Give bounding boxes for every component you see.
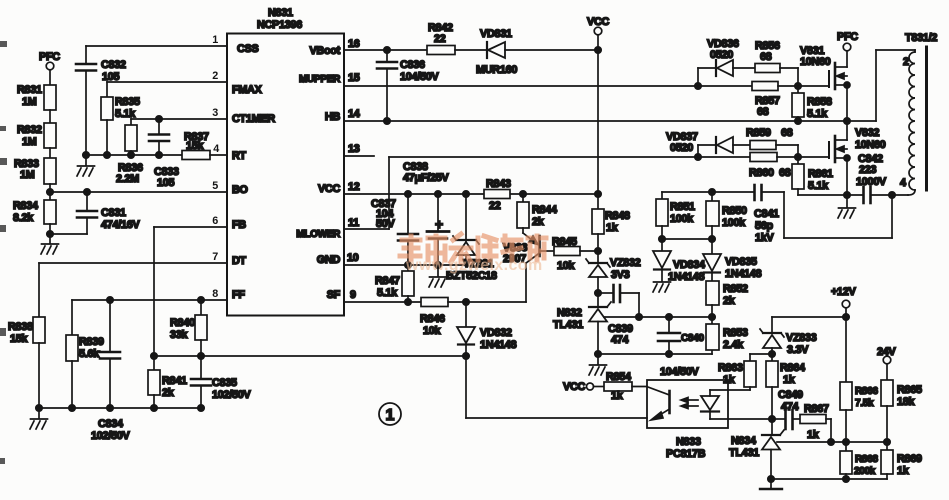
svg-text:15k: 15k	[10, 333, 29, 345]
wire	[49, 224, 51, 243]
transistor V833 2907	[503, 228, 554, 302]
wire CSS pin1 line	[86, 46, 227, 63]
resistor R852	[706, 281, 748, 324]
capacitor C838 electrolytic	[403, 161, 449, 265]
diode VD832 1N4148	[457, 302, 517, 356]
svg-text:VD832: VD832	[480, 327, 512, 339]
pin 3 CTIMER	[212, 107, 275, 125]
svg-text:10: 10	[347, 252, 359, 264]
svg-text:22: 22	[489, 200, 501, 212]
pin 8 FF	[212, 288, 245, 301]
svg-text:8: 8	[212, 288, 218, 300]
svg-text:R850: R850	[722, 205, 747, 217]
node R834 bottom junction	[47, 231, 53, 237]
svg-text:GND: GND	[317, 254, 341, 266]
svg-text:2.4k: 2.4k	[723, 339, 744, 351]
svg-text:100k: 100k	[670, 213, 694, 225]
svg-text:C849: C849	[778, 389, 803, 401]
svg-text:1N4148: 1N4148	[668, 271, 705, 283]
circled figure number 1	[379, 403, 401, 425]
svg-text:SF: SF	[327, 289, 341, 301]
wire CTIMER pin3 line	[131, 119, 227, 125]
svg-text:R863: R863	[718, 362, 743, 374]
resistor R838	[8, 317, 45, 408]
resistor R846	[420, 298, 526, 338]
wire GND pin10 line	[344, 262, 466, 268]
resistor R850	[706, 192, 747, 254]
svg-text:11: 11	[348, 217, 359, 229]
wire	[49, 148, 51, 158]
pin 4 RT	[213, 143, 246, 162]
resistor R845	[552, 236, 598, 272]
svg-text:1N4148: 1N4148	[480, 339, 517, 351]
pin 16 VBoot	[309, 38, 359, 57]
pin 7 DT	[212, 251, 246, 267]
svg-text:R841: R841	[162, 375, 187, 387]
svg-text:CT1MER: CT1MER	[232, 113, 275, 125]
ground (secondary, single bar)	[760, 488, 782, 490]
svg-text:VZ832: VZ832	[610, 257, 641, 269]
svg-text:N832: N832	[557, 307, 582, 319]
svg-text:15: 15	[348, 72, 360, 84]
node MLOWER network left junction	[695, 145, 716, 160]
svg-text:2k: 2k	[162, 387, 175, 399]
svg-text:1k: 1k	[807, 429, 820, 441]
svg-text:0520: 0520	[710, 49, 733, 61]
svg-text:FF: FF	[232, 289, 245, 301]
svg-text:7: 7	[212, 251, 218, 263]
svg-text:R848: R848	[605, 210, 630, 222]
svg-text:5.1k: 5.1k	[807, 108, 828, 120]
resistor R840	[170, 297, 207, 356]
watermark	[400, 234, 546, 274]
ground	[429, 265, 447, 287]
svg-text:223: 223	[859, 164, 877, 176]
svg-text:R861: R861	[808, 168, 833, 180]
svg-text:TL431: TL431	[729, 447, 759, 459]
svg-text:C835: C835	[212, 377, 237, 389]
ground	[589, 365, 607, 375]
resistor R864	[766, 361, 805, 434]
node VCC terminal	[587, 16, 609, 194]
svg-text:1k: 1k	[611, 390, 624, 402]
svg-text:1N4148: 1N4148	[725, 268, 762, 280]
svg-text:474: 474	[781, 401, 799, 413]
shunt-reg N834 TL431	[729, 430, 887, 488]
svg-text:R869: R869	[897, 453, 922, 465]
svg-text:R866: R866	[855, 386, 878, 397]
wire	[49, 184, 51, 200]
pin 12 VCC	[318, 181, 360, 195]
op-amp U2 : optocoupler N833 PC817B	[647, 380, 728, 460]
svg-text:9: 9	[350, 289, 356, 301]
resistor R867	[800, 403, 831, 442]
svg-text:200k: 200k	[854, 466, 876, 477]
svg-text:100k: 100k	[722, 217, 746, 229]
resistor R836	[116, 125, 143, 185]
svg-text:C841: C841	[754, 208, 779, 220]
svg-text:www.gzweix.com: www.gzweix.com	[405, 257, 543, 274]
resistor R837	[182, 131, 227, 160]
svg-text:0520: 0520	[670, 142, 693, 154]
svg-text:R831: R831	[17, 84, 42, 96]
resistor R860	[698, 153, 829, 180]
svg-text:PC817B: PC817B	[666, 448, 706, 460]
node BO junction	[47, 189, 53, 195]
svg-text:22: 22	[434, 33, 446, 45]
svg-text:1k: 1k	[897, 465, 910, 477]
svg-text:474: 474	[611, 334, 629, 346]
svg-text:R840: R840	[170, 317, 195, 329]
node ground rail junctions	[36, 405, 204, 411]
resistor R859	[746, 127, 798, 157]
resistor R848	[592, 194, 630, 262]
capacitor C849 474	[772, 389, 803, 429]
node 24V terminal	[877, 346, 897, 380]
svg-text:R864: R864	[780, 362, 805, 374]
op-amp U1 : IC N831 NCP1396 controller box	[227, 7, 344, 316]
svg-text:R832: R832	[17, 124, 42, 136]
svg-text:1000V: 1000V	[856, 176, 887, 188]
svg-text:VCC: VCC	[587, 16, 609, 28]
ground	[77, 155, 95, 176]
svg-text:C831: C831	[101, 207, 126, 219]
svg-text:1M: 1M	[22, 96, 37, 108]
scan edge artifacts	[0, 41, 7, 464]
capacitor C831	[50, 192, 141, 234]
diode VD836 0520	[707, 38, 755, 76]
svg-text:10k: 10k	[423, 325, 442, 337]
capacitor C839	[598, 285, 639, 346]
svg-text:105: 105	[157, 177, 175, 189]
svg-text:DT: DT	[232, 255, 247, 267]
pin 13 stub	[344, 143, 374, 156]
svg-text:5.6k: 5.6k	[79, 348, 100, 360]
resistor R851	[656, 192, 695, 251]
wire VBoot pin16 line	[344, 47, 427, 53]
svg-text:12: 12	[348, 181, 360, 193]
capacitor C842 223 1000V	[856, 153, 908, 203]
svg-text:V832: V832	[855, 127, 879, 139]
diode VD834 1N4148	[653, 251, 705, 283]
resistor R861	[792, 157, 862, 195]
node PFC (left input terminal)	[39, 51, 60, 85]
svg-text:10N60: 10N60	[855, 139, 886, 151]
svg-text:C832: C832	[101, 59, 126, 71]
svg-text:R835: R835	[115, 96, 140, 108]
node C831 tap	[84, 189, 90, 195]
svg-text:R839: R839	[79, 336, 104, 348]
node VCC terminal (R854)	[563, 381, 604, 393]
svg-text:BO: BO	[232, 184, 248, 196]
ground	[653, 282, 671, 292]
wire secondary ground rail y354	[598, 350, 712, 357]
resistor R868	[840, 451, 878, 479]
svg-text:1M: 1M	[20, 169, 35, 181]
capacitor C836 bootstrap	[377, 50, 440, 121]
resistor R831	[17, 84, 56, 110]
resistor R835	[101, 96, 140, 155]
node CT junction	[156, 116, 162, 122]
pin 14 HB	[325, 108, 360, 123]
ground	[838, 195, 856, 218]
svg-text:R859: R859	[746, 127, 771, 139]
pin 11 MLOWER	[296, 217, 359, 240]
svg-text:1k: 1k	[606, 222, 619, 234]
resistor R842	[427, 22, 487, 55]
zener VZ833 3.3V	[760, 317, 846, 361]
node REF-line junctions	[828, 439, 890, 445]
svg-text:NCP1396: NCP1396	[257, 19, 302, 31]
svg-text:102/50V: 102/50V	[212, 389, 252, 401]
svg-text:MLOWER: MLOWER	[296, 229, 341, 240]
svg-text:16: 16	[348, 38, 360, 50]
node rail junctions	[83, 152, 162, 158]
svg-text:1: 1	[386, 407, 395, 424]
svg-text:47μF/25V: 47μF/25V	[403, 172, 449, 184]
resistor R834	[13, 200, 56, 224]
resistor R863	[718, 354, 772, 390]
svg-text:13: 13	[348, 143, 360, 155]
pin 1 CSS	[212, 34, 258, 55]
diode VD831 MUR160	[476, 28, 598, 76]
svg-text:2: 2	[903, 56, 909, 68]
svg-text:8.2k: 8.2k	[13, 212, 34, 224]
svg-text:3V3: 3V3	[611, 269, 630, 281]
wire FB pin6 line	[154, 227, 227, 356]
capacitor C840	[658, 317, 704, 378]
pin 5 BO	[212, 180, 247, 196]
transistor Q1 : MOSFET V831 10N60	[800, 45, 850, 121]
wire bottom-left ground rail	[39, 407, 201, 409]
pin 9 SF	[327, 289, 356, 301]
wire VD834/VD835 link	[662, 238, 712, 240]
wire BO line to IC pin5	[50, 191, 227, 193]
svg-text:PFC: PFC	[39, 51, 60, 63]
wire feedback rail y356	[154, 355, 466, 357]
svg-text:FMAX: FMAX	[232, 84, 263, 96]
svg-text:1kV: 1kV	[755, 232, 775, 244]
transistor phototransistor of N833	[648, 387, 670, 420]
resistor R857	[698, 82, 829, 119]
capacitor C835	[191, 356, 252, 408]
capacitor C832	[76, 59, 126, 155]
wire secondary bottom rail	[771, 476, 887, 482]
wire VCC pin12 line	[344, 191, 601, 197]
wire VD832 to optocoupler	[463, 353, 647, 418]
svg-text:VZ833: VZ833	[786, 332, 817, 344]
svg-text:102/50V: 102/50V	[91, 430, 131, 442]
svg-text:1k: 1k	[783, 374, 796, 386]
svg-text:3: 3	[212, 107, 218, 119]
svg-text:VCC: VCC	[563, 381, 585, 393]
svg-text:10N60: 10N60	[800, 56, 831, 68]
wire SF pin9 line	[344, 299, 421, 305]
node PFC terminal (right)	[837, 31, 858, 51]
resistor R841	[148, 356, 187, 408]
svg-text:104/50V: 104/50V	[400, 71, 440, 83]
svg-text:68: 68	[779, 167, 791, 179]
capacitor C833	[149, 119, 179, 189]
svg-text:1: 1	[212, 34, 218, 46]
svg-text:4: 4	[213, 143, 219, 155]
svg-text:R858: R858	[807, 96, 832, 108]
svg-text:R838: R838	[8, 321, 33, 333]
zener VZ832 3V3	[586, 257, 641, 306]
diode VD835 1N4148	[703, 254, 762, 281]
wire	[49, 110, 51, 123]
svg-text:33k: 33k	[170, 329, 189, 341]
svg-text:18k: 18k	[897, 396, 916, 408]
shunt-reg N832 TL431	[553, 302, 712, 364]
svg-text:C840: C840	[681, 333, 704, 344]
svg-text:N831: N831	[268, 7, 293, 19]
capacitor C841 56p 1kV	[754, 185, 892, 244]
svg-text:R852: R852	[723, 283, 748, 295]
svg-text:FB: FB	[232, 219, 246, 231]
resistor R832	[17, 123, 56, 148]
svg-text:C836: C836	[400, 59, 425, 71]
ground	[30, 408, 48, 429]
svg-text:4: 4	[900, 177, 906, 189]
pin 6 FB	[212, 215, 246, 231]
zener VZ831 BZT52C18	[446, 191, 497, 282]
svg-text:HB: HB	[325, 111, 341, 123]
resistor R856	[755, 40, 798, 86]
light arrows	[681, 398, 698, 409]
svg-text:3.3V: 3.3V	[787, 344, 809, 356]
node MUPPER network left junction	[695, 68, 716, 89]
svg-text:2k: 2k	[532, 216, 545, 228]
svg-text:R868: R868	[855, 454, 878, 465]
diode VD837 0520	[666, 131, 750, 154]
svg-text:56p: 56p	[755, 220, 774, 232]
svg-text:VD831: VD831	[480, 28, 512, 40]
capacitor C834	[91, 297, 131, 442]
pin 10 GND	[317, 252, 359, 266]
svg-text:5.1k: 5.1k	[808, 180, 829, 192]
wire R851/R850 top link	[662, 189, 753, 195]
svg-text:5: 5	[212, 180, 218, 192]
svg-text:474/16V: 474/16V	[101, 219, 141, 231]
svg-text:5.1k: 5.1k	[377, 287, 398, 299]
svg-text:2k: 2k	[723, 295, 736, 307]
svg-text:N833: N833	[676, 436, 701, 448]
svg-text:R867: R867	[804, 403, 829, 415]
resistor R843	[484, 178, 511, 212]
resistor R844	[517, 191, 557, 228]
resistor R847	[375, 265, 414, 302]
svg-text:R851: R851	[670, 201, 695, 213]
svg-text:2: 2	[212, 70, 218, 82]
resistor R865	[881, 380, 922, 450]
svg-text:VCC: VCC	[318, 183, 340, 195]
resistor R854	[604, 371, 647, 402]
svg-text:104/50V: 104/50V	[660, 366, 700, 378]
resistor R866	[840, 382, 878, 451]
wire HB pin14 line	[344, 118, 847, 124]
svg-text:R853: R853	[723, 327, 748, 339]
svg-text:R847: R847	[375, 275, 400, 287]
svg-text:1k: 1k	[723, 374, 736, 386]
transistor Q2 : MOSFET V832 10N60	[829, 121, 886, 195]
svg-text:6: 6	[212, 215, 218, 227]
svg-text:R846: R846	[420, 313, 445, 325]
wire MUPPER pin15 line	[344, 85, 698, 87]
capacitor C837	[371, 191, 418, 265]
node REF line junctions	[636, 314, 715, 320]
svg-text:R834: R834	[13, 200, 38, 212]
svg-text:14: 14	[348, 108, 360, 120]
svg-text:R860: R860	[749, 167, 774, 179]
resistor R853	[706, 324, 748, 351]
svg-text:10k: 10k	[557, 260, 576, 272]
pin 2 FMAX	[212, 70, 262, 96]
diode LED of N833	[701, 390, 772, 419]
wire timing ground rail	[86, 154, 182, 156]
svg-text:PFC: PFC	[837, 31, 858, 43]
svg-text:R843: R843	[486, 178, 511, 190]
svg-text:7.5k: 7.5k	[855, 398, 874, 409]
svg-text:+12V: +12V	[831, 286, 857, 298]
svg-text:MUPPER: MUPPER	[299, 74, 341, 85]
node junctions on y356	[151, 353, 204, 359]
svg-text:15k: 15k	[186, 140, 205, 152]
svg-text:CSS: CSS	[237, 43, 258, 55]
node +12V terminal	[831, 286, 857, 382]
svg-text:TL431: TL431	[553, 319, 583, 331]
svg-text:VBoot: VBoot	[309, 45, 340, 57]
svg-text:68: 68	[757, 106, 769, 118]
svg-text:R865: R865	[897, 384, 922, 396]
transformer T831/2 primary	[847, 32, 937, 195]
resistor R833	[14, 158, 56, 184]
ground	[41, 244, 59, 254]
svg-text:RT: RT	[232, 150, 247, 162]
svg-text:R845: R845	[552, 236, 577, 248]
svg-text:VD835: VD835	[725, 256, 757, 268]
wire FMAX pin2 line	[107, 82, 227, 97]
node HB half-bridge junction	[844, 118, 850, 124]
svg-text:R854: R854	[606, 371, 631, 383]
svg-text:MUR160: MUR160	[476, 64, 517, 76]
resistor R869	[881, 450, 922, 479]
wire FF pin8 line	[72, 300, 227, 335]
svg-text:VD834: VD834	[673, 259, 705, 271]
svg-text:T831/2: T831/2	[905, 32, 937, 44]
svg-text:R844: R844	[532, 204, 557, 216]
svg-text:68: 68	[781, 127, 793, 139]
svg-text:N834: N834	[731, 435, 756, 447]
svg-text:1M: 1M	[22, 136, 37, 148]
resistor R839	[66, 335, 104, 408]
wire DT pin7 line	[39, 263, 227, 317]
wire MLOWER pin11 route	[344, 157, 698, 229]
svg-text:2.2M: 2.2M	[116, 173, 139, 185]
node primary return junction	[844, 192, 850, 198]
svg-text:68: 68	[760, 51, 772, 63]
pin 15 MUPPER	[299, 72, 360, 85]
resistor R858	[792, 86, 832, 124]
svg-text:C834: C834	[98, 418, 123, 430]
svg-text:+: +	[435, 216, 443, 232]
